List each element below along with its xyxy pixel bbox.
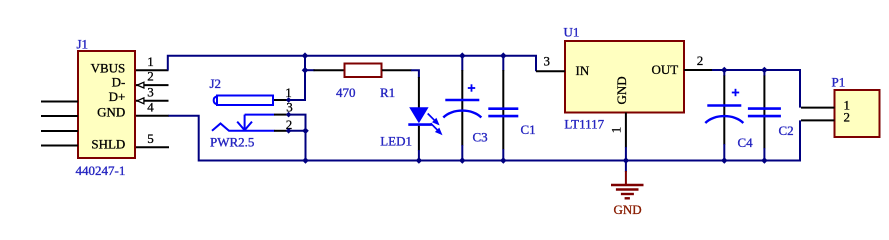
svg-text:LT1117: LT1117: [564, 117, 604, 132]
wire LED to bottom rail: [418, 150, 420, 161]
svg-text:3: 3: [544, 54, 551, 69]
svg-text:3: 3: [147, 84, 154, 99]
svg-text:J1: J1: [77, 37, 89, 52]
junction at GND stem: [623, 157, 630, 164]
U1 pin 1 (GND): [625, 113, 627, 148]
capacitor C2 pins (vertical): [763, 76, 765, 149]
C3 top plate: [445, 99, 479, 102]
svg-text:D+: D+: [109, 89, 126, 104]
C2 bottom plate: [748, 115, 781, 118]
svg-text:2: 2: [147, 69, 154, 84]
U1 pin 2 (OUT): [684, 69, 713, 71]
C4 curved plate: [705, 116, 743, 123]
connector J2 barrel circle: [214, 96, 217, 104]
svg-text:GND: GND: [614, 202, 642, 217]
U1 pin 3 (IN): [536, 70, 565, 72]
wire branch vertical at x=305 from top rail down to J2 pin1: [289, 56, 306, 100]
J1 pin 2: [136, 84, 169, 86]
svg-text:P1: P1: [832, 75, 846, 90]
J2 pin 2: [274, 130, 289, 132]
LED1 cathode bar: [408, 123, 432, 126]
capacitor C4 bottom wire: [723, 144, 725, 161]
P1 pin 1: [801, 107, 835, 109]
capacitor C1 top wire: [502, 56, 504, 71]
J2 pin 1 dot: [286, 97, 292, 103]
junction at rail x=462 (C3): [459, 52, 466, 59]
svg-text:470: 470: [336, 85, 356, 100]
junction at bottom rail x=462 (C3): [459, 157, 466, 164]
LED1 light arrow 1: [428, 114, 438, 124]
wire R1 to LED corner: [411, 70, 419, 78]
junction at rail x=305: [302, 52, 309, 59]
svg-text:J2: J2: [210, 76, 222, 91]
svg-text:1: 1: [609, 127, 624, 134]
svg-text:SHLD: SHLD: [91, 137, 125, 152]
J1 shield pin b: [41, 115, 78, 117]
C1 bottom plate: [488, 115, 518, 118]
capacitor C2 bottom wire: [763, 148, 765, 161]
junction at bottom rail x=305: [302, 157, 309, 164]
junction at bottom rail x=724 (C4): [721, 157, 728, 164]
svg-text:C3: C3: [473, 130, 488, 145]
J1 pin 1: [136, 69, 169, 71]
resistor R1 right pin: [382, 69, 412, 71]
junction at OUT rail x=764 (C2): [761, 67, 768, 74]
capacitor C3 bottom wire: [461, 145, 463, 161]
LED1 light arrow 2: [431, 123, 441, 133]
J1 shield pin d: [41, 145, 78, 147]
capacitor C4 pins (vertical): [723, 76, 725, 145]
resistor R1 body: [345, 64, 382, 78]
junction at bottom rail x=419 (LED): [416, 157, 423, 164]
junction at OUT rail x=724 (C4): [721, 67, 728, 74]
svg-text:C4: C4: [738, 135, 754, 150]
wire GND net: J1 pin4 to bottom rail and across to P1 pin 2: [169, 116, 801, 161]
J2 pin 3 lead: [245, 114, 275, 116]
C3 curved plate: [443, 111, 481, 118]
connector J2 barrel body: [217, 96, 273, 106]
svg-text:D-: D-: [112, 74, 126, 89]
wire OUT net: U1 pin2 across to P1 corner: [712, 70, 800, 108]
capacitor C2 top wire: [763, 70, 765, 76]
J1 pin 5: [136, 146, 169, 148]
svg-text:PWR2.5: PWR2.5: [210, 134, 254, 149]
svg-text:2: 2: [697, 53, 704, 68]
svg-text:IN: IN: [576, 63, 590, 78]
C4 top plate: [707, 104, 741, 107]
svg-text:1: 1: [147, 54, 154, 69]
svg-text:U1: U1: [564, 25, 580, 40]
ground symbol bar 3: [621, 193, 634, 195]
wire GND stem below rail: [625, 161, 627, 173]
J2 switch lever: [212, 124, 275, 131]
capacitor C4 top wire: [723, 70, 725, 76]
svg-text:C2: C2: [779, 123, 794, 138]
svg-text:440247-1: 440247-1: [76, 163, 126, 178]
junction at R1 tap: [302, 67, 309, 74]
J2 pin 3 dot: [286, 112, 292, 118]
wire J2 pin 3 to vertical: [289, 115, 306, 161]
ground symbol bar 1: [611, 184, 644, 186]
C2 top plate: [748, 107, 781, 110]
wire J2 pin 2 to vertical: [289, 130, 306, 132]
svg-text:LED1: LED1: [380, 133, 412, 148]
J1 pin 3 input arrow: [137, 98, 144, 104]
svg-text:2: 2: [844, 110, 851, 125]
P1 pin 2: [801, 119, 835, 121]
connector J1 body: [78, 51, 135, 158]
wire U1 GND pin to bottom rail: [625, 147, 627, 161]
svg-text:GND: GND: [614, 76, 629, 104]
capacitor C3 pins (vertical): [461, 70, 463, 146]
wire VBUS net: J1 pin1 up to top rail and across to U1 IN corner: [168, 56, 536, 72]
svg-text:OUT: OUT: [652, 62, 679, 77]
connector P1 body: [835, 90, 880, 137]
junction at rail x=503 (C1): [500, 52, 507, 59]
svg-text:VBUS: VBUS: [91, 60, 126, 75]
svg-text:5: 5: [147, 131, 154, 146]
ground symbol bar 2: [616, 188, 639, 190]
svg-text:4: 4: [147, 99, 154, 114]
J1 shield pin a: [41, 101, 78, 103]
C4 plus sign: [732, 89, 739, 96]
regulator U1 body: [565, 41, 684, 113]
LED1 anode pin: [418, 77, 420, 108]
J1 shield pin c: [41, 130, 78, 132]
capacitor C1 pins (vertical): [502, 70, 504, 150]
J2 pin 3: [274, 114, 289, 116]
junction at J2 vertical pin2: [302, 128, 309, 135]
ground symbol bar 4: [625, 197, 630, 199]
LED1 cathode pin: [418, 126, 420, 151]
svg-text:C1: C1: [521, 122, 536, 137]
J1 pin 4: [136, 115, 169, 117]
junction at bottom rail x=764 (C2): [761, 157, 768, 164]
resistor R1 left pin: [314, 69, 345, 71]
J1 pin 2 input arrow: [137, 82, 144, 88]
ground symbol stem: [625, 171, 627, 185]
svg-text:3: 3: [286, 100, 293, 115]
capacitor C1 bottom wire: [502, 149, 504, 161]
J1 pin 3: [136, 100, 169, 102]
capacitor C3 top wire: [461, 56, 463, 71]
svg-text:R1: R1: [380, 85, 395, 100]
svg-text:GND: GND: [97, 105, 125, 120]
C1 top plate: [488, 107, 518, 110]
J2 pin 2 dot: [286, 128, 292, 134]
J2 pin 1: [274, 99, 289, 101]
LED1 triangle: [409, 107, 428, 123]
wire R1 tap to resistor: [305, 69, 315, 71]
junction at bottom rail x=503 (C1): [500, 157, 507, 164]
J2 switch stub and arrow: [237, 115, 252, 131]
C3 plus sign: [468, 84, 475, 91]
